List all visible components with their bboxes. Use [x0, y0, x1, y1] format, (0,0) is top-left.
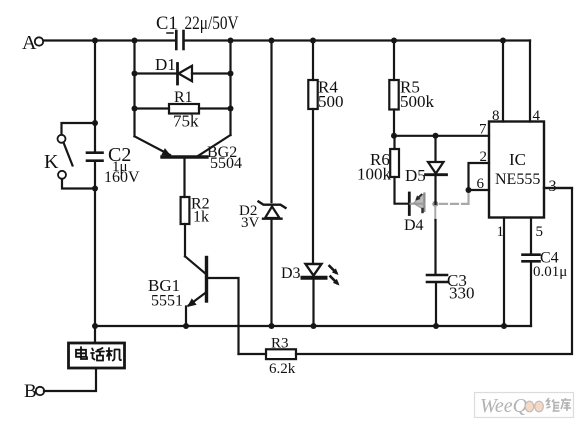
- svg-text:500: 500: [318, 92, 344, 111]
- grey node D5/C3 junction: [432, 201, 438, 207]
- capacitor C1: [156, 14, 239, 49]
- svg-text:5504: 5504: [210, 155, 242, 172]
- node pin7 x435.5: [433, 133, 439, 139]
- node rail x95: [92, 323, 98, 329]
- node top rail x313: [310, 38, 316, 44]
- svg-text:4: 4: [533, 108, 541, 124]
- svg-text:D5: D5: [405, 166, 426, 185]
- telephone box text 电话机 (drawn strokes): [76, 347, 121, 361]
- transistor BG2: [135, 135, 243, 197]
- capacitor C2: [87, 144, 140, 189]
- svg-text:3: 3: [549, 178, 557, 195]
- node top rail x271.5: [269, 38, 275, 44]
- pin 1: [497, 218, 505, 327]
- LED D3: [281, 264, 340, 326]
- svg-text:WeeQ: WeeQ: [480, 395, 528, 417]
- wire top rail right of C1: [184, 39, 530, 41]
- wire left vertical x134.5: [133, 41, 135, 137]
- pin 8: [492, 41, 503, 125]
- pin 2: [469, 149, 490, 190]
- svg-text:3V: 3V: [241, 215, 260, 231]
- zener diode D2: [239, 41, 286, 327]
- ground rail y326: [95, 325, 531, 327]
- node top rail x95: [92, 38, 98, 44]
- svg-text:B: B: [24, 381, 37, 402]
- svg-text:D4: D4: [404, 217, 424, 234]
- wire x95 down to ground rail: [94, 189, 96, 327]
- resistor R5: [389, 41, 434, 136]
- watermark WeeQoo box: [475, 393, 574, 418]
- svg-text:330: 330: [449, 284, 475, 303]
- wire D5 to C3 (grey upper): [434, 206, 436, 220]
- grey dashed wire D4 to pin6: [440, 191, 469, 204]
- capacitor C3: [427, 271, 475, 326]
- capacitor C4: [523, 250, 568, 327]
- node pin7 x394: [391, 133, 397, 139]
- node rail x504: [501, 323, 507, 329]
- svg-text:1k: 1k: [193, 209, 209, 226]
- photodiode D4: [404, 193, 424, 234]
- node x134.5 D1 row: [132, 71, 138, 77]
- svg-text:500k: 500k: [400, 92, 435, 111]
- IC U1 NE555: [489, 122, 544, 218]
- svg-text:1: 1: [497, 224, 505, 240]
- svg-text:160V: 160V: [104, 169, 140, 186]
- diode D1: [135, 55, 231, 84]
- node top rail x394: [391, 38, 397, 44]
- resistor R3: [239, 188, 573, 377]
- svg-text:D1: D1: [155, 55, 176, 74]
- svg-text:5: 5: [536, 224, 544, 240]
- pin 4: [530, 41, 541, 125]
- resistor R6: [357, 136, 409, 204]
- node top rail x503: [500, 38, 506, 44]
- svg-text:6.2k: 6.2k: [269, 361, 296, 377]
- svg-text:8: 8: [492, 108, 500, 124]
- wire right vertical x230.5: [229, 41, 231, 136]
- node rail x436: [433, 323, 439, 329]
- node rail x271.5: [269, 323, 275, 329]
- svg-text:7: 7: [479, 122, 487, 138]
- svg-text:100k: 100k: [357, 165, 392, 184]
- node x134.5 R1 row: [132, 106, 138, 112]
- node top rail x230.5: [228, 38, 234, 44]
- svg-text:5551: 5551: [151, 293, 183, 310]
- node x230.5 R1 row: [228, 106, 234, 112]
- svg-text:22μ/50V: 22μ/50V: [185, 14, 240, 34]
- node rail x313: [311, 323, 317, 329]
- resistor R2: [181, 196, 210, 257]
- wire left vertical x95 (A to C2): [94, 41, 96, 153]
- wire top rail: [44, 39, 177, 41]
- telephone box 电话机: [44, 326, 125, 391]
- resistor R4: [308, 41, 343, 264]
- node rail x186: [183, 323, 189, 329]
- svg-text:NE555: NE555: [495, 171, 540, 188]
- pin 5: [531, 218, 543, 255]
- svg-text:IC: IC: [509, 150, 526, 169]
- pin 6: [466, 176, 490, 193]
- transistor BG1: [148, 256, 239, 354]
- terminal A: [22, 32, 43, 54]
- diode D5: [405, 136, 447, 204]
- svg-text:0.01μ: 0.01μ: [533, 264, 567, 280]
- svg-text:D3: D3: [281, 265, 301, 282]
- wire pin7 line: [394, 135, 489, 137]
- pin 3: [544, 178, 572, 195]
- svg-text:K: K: [44, 151, 59, 173]
- node x230.5 D1 row: [228, 71, 234, 77]
- resistor R1: [135, 89, 231, 131]
- node K tee lower: [92, 186, 98, 192]
- node K tee upper: [92, 120, 98, 126]
- svg-text:C1: C1: [156, 14, 178, 34]
- terminal B: [24, 381, 44, 402]
- node top rail x134.5: [132, 38, 138, 44]
- watermark 维库 strokes: [547, 398, 572, 411]
- switch K: [44, 123, 95, 189]
